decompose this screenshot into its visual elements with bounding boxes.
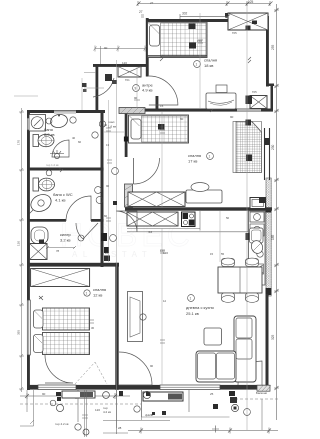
svg-text:1: 1: [196, 63, 198, 67]
svg-text:Г01: Г01: [125, 78, 130, 82]
dimension column left: [19, 108, 24, 392]
room label closet: [60, 232, 72, 243]
wall bathroom2 bottom: [27, 219, 104, 222]
wall between bathrooms: [27, 168, 104, 171]
svg-text:27: 27: [150, 1, 154, 5]
svg-text:120: 120: [160, 249, 165, 253]
svg-text:150: 150: [197, 39, 202, 43]
svg-text:тоал: тоал: [108, 120, 115, 124]
svg-text:60: 60: [104, 214, 108, 218]
wall bathrooms right: [101, 110, 104, 267]
wall left of entrance: [96, 64, 99, 112]
svg-text:170: 170: [17, 140, 21, 145]
axis line horizontal top: [14, 73, 104, 111]
circled markers bottom: [50, 400, 250, 430]
svg-text:Балкони: Балкони: [256, 391, 267, 395]
wall living left: [115, 263, 118, 390]
door leaf closet: [76, 223, 98, 239]
axis line vertical C: [246, 2, 248, 430]
svg-text:15: 15: [160, 104, 164, 108]
wall right upper: [266, 16, 269, 87]
svg-text:13: 13: [106, 143, 110, 147]
section marker black: [101, 233, 109, 253]
door arc living right: [238, 361, 262, 385]
svg-text:27: 27: [139, 10, 143, 14]
svg-text:230: 230: [271, 144, 275, 150]
desk bedroom1: [206, 85, 252, 109]
shelf X closet: [30, 244, 48, 260]
svg-text:25.1 кв: 25.1 кв: [186, 311, 199, 316]
svg-text:120: 120: [95, 408, 100, 412]
dimension right column: [274, 4, 279, 420]
terrace grid right: [233, 120, 270, 181]
svg-text:баня с WC: баня с WC: [53, 192, 73, 197]
svg-text:Г05: Г05: [232, 31, 237, 35]
svg-text:дневна с кухня: дневна с кухня: [186, 305, 214, 310]
wall middle gray piece: [125, 184, 133, 207]
dining table: [218, 267, 262, 293]
room label living: [186, 295, 214, 316]
small ticks and marks scatter: [60, 55, 251, 172]
circled markers corridor: [46, 117, 146, 320]
svg-text:125: 125: [248, 0, 254, 4]
wall bottom exterior: [27, 385, 269, 390]
kitchen cabinet X: [127, 212, 178, 226]
dimension marks corridor: [106, 40, 203, 343]
svg-text:1: 1: [190, 297, 192, 301]
tv stand: [128, 292, 143, 342]
svg-text:30: 30: [91, 326, 95, 330]
door arc living terrace: [119, 352, 152, 385]
svg-text:спалня: спалня: [204, 58, 217, 63]
toilet bathroom2: [33, 178, 55, 191]
window bottom bedroom2: [38, 385, 76, 390]
svg-text:185: 185: [271, 234, 275, 240]
svg-text:90: 90: [106, 184, 110, 188]
dim line closet: [46, 246, 76, 253]
bed bedroom1: [148, 22, 208, 58]
sink bathroom2: [28, 191, 54, 214]
svg-text:тер 4.2 кв: тер 4.2 кв: [55, 422, 69, 426]
svg-text:40: 40: [104, 123, 108, 127]
label terrace bottom: [212, 391, 267, 433]
svg-text:28: 28: [118, 426, 122, 430]
svg-text:130: 130: [17, 241, 21, 246]
svg-text:12: 12: [163, 299, 167, 303]
wall bathroom top: [27, 110, 105, 113]
dimension top: [137, 1, 273, 19]
svg-text:255: 255: [271, 44, 275, 50]
wall top bedroom1: [147, 19, 231, 22]
svg-text:15: 15: [210, 252, 214, 256]
svg-text:9: 9: [135, 87, 137, 91]
svg-text:спалня: спалня: [188, 153, 201, 158]
bottom extra details: [20, 390, 170, 437]
corridor extra markers: [99, 120, 124, 261]
wall middle bedroom left: [124, 112, 128, 157]
svg-text:2.9 кв: 2.9 кв: [44, 132, 55, 137]
axis line vertical B: [116, 60, 118, 428]
doormat X entrance: [118, 67, 141, 78]
svg-text:килер: килер: [60, 232, 72, 237]
svg-text:90: 90: [160, 125, 164, 129]
wall gray under entrance: [119, 108, 145, 114]
bottom small balcony slab: [143, 392, 183, 401]
room label bathroom2: [53, 192, 73, 203]
wall right of terrace (double line above): [0, 0, 1, 1]
svg-text:3.2 кв: 3.2 кв: [60, 238, 71, 243]
svg-text:60: 60: [78, 140, 82, 144]
shower head bathroom1: [50, 150, 64, 159]
door arc bedroom1: [149, 76, 178, 105]
door arc middle bedroom: [134, 158, 160, 184]
wall kitchen horizontal: [125, 207, 272, 210]
svg-text:55: 55: [221, 252, 225, 256]
door arc living from hall: [116, 211, 137, 232]
counter edge kitchen: [127, 211, 248, 232]
svg-text:302: 302: [182, 12, 188, 16]
window bottom living: [160, 385, 220, 390]
room label hall: [133, 83, 154, 93]
svg-text:25: 25: [210, 392, 214, 396]
wardrobe X bedroom2: [31, 269, 90, 287]
pier bottom right hatched: [257, 385, 271, 391]
sofa L: [196, 316, 256, 382]
wardrobe X middle bedroom: [128, 192, 185, 207]
dimension line hall top: [94, 46, 147, 65]
wall closet bottom: [27, 263, 119, 267]
wall right lower hatched: [266, 178, 272, 296]
svg-text:78: 78: [56, 249, 60, 253]
desk middle bedroom: [186, 183, 222, 204]
svg-text:90: 90: [104, 46, 108, 50]
bed middle bedroom: [129, 115, 189, 143]
svg-text:ф12Ф: ф12Ф: [145, 413, 154, 417]
toilet bathroom1: [33, 134, 54, 146]
wall bedroom1 bottom: [142, 96, 273, 112]
dimension line corridor vertical: [109, 13, 221, 385]
wall right living: [266, 294, 269, 390]
svg-text:спалня: спалня: [93, 287, 106, 292]
svg-text:4.2 кв: 4.2 кв: [103, 410, 111, 414]
wardrobe X small corner: [250, 96, 267, 109]
dim marks bedroom2: [39, 296, 95, 330]
svg-text:90: 90: [134, 96, 138, 100]
svg-text:Г05: Г05: [252, 90, 257, 94]
kitchen counter top small: [250, 198, 266, 209]
wardrobe X top right: [225, 13, 268, 30]
window left bedroom2: [27, 300, 30, 355]
svg-text:120: 120: [122, 61, 127, 65]
svg-text:50: 50: [226, 216, 230, 220]
svg-text:90: 90: [150, 364, 154, 368]
svg-text:355: 355: [17, 330, 21, 335]
coffee table: [204, 328, 222, 345]
svg-text:20: 20: [105, 251, 109, 255]
bottom slab left: [62, 391, 95, 398]
wall step right y85: [266, 84, 274, 111]
svg-text:90: 90: [180, 117, 184, 121]
svg-text:90: 90: [230, 115, 234, 119]
svg-text:12 кв: 12 кв: [93, 293, 102, 298]
room label bathroom1: [44, 127, 55, 137]
wall left exterior: [27, 110, 30, 390]
svg-text:1: 1: [209, 155, 211, 159]
bed2 top bedroom2: [34, 308, 90, 330]
bed3 bottom bedroom2: [34, 333, 90, 355]
svg-text:/12: /12: [148, 230, 153, 234]
door arc bathroom2: [66, 196, 91, 221]
chairs dining: [222, 258, 259, 302]
terrace outline bottom: [20, 390, 278, 430]
svg-text:тер 1.2 кв: тер 1.2 кв: [46, 163, 59, 167]
door arc bathroom1: [52, 140, 69, 157]
window left bathroom: [27, 118, 30, 130]
washing machine: [29, 115, 46, 132]
door arc bedroom2 terrace: [45, 355, 107, 384]
dark marker blobs bottom: [56, 391, 166, 415]
svg-text:1: 1: [86, 292, 88, 296]
svg-text:П: П: [59, 167, 61, 171]
svg-text:90: 90: [42, 392, 46, 396]
room label middle bedroom: [188, 153, 213, 164]
room label bedroom2: [84, 287, 106, 298]
svg-text:4.9 кв: 4.9 кв: [142, 88, 153, 93]
svg-text:17 кв: 17 кв: [188, 159, 197, 164]
dimension bottom rows: [20, 390, 278, 434]
svg-text:4.1 кв: 4.1 кв: [55, 198, 66, 203]
water heater closet: [31, 227, 48, 244]
tiny dim texts: [42, 1, 234, 426]
room label bedroom1: [194, 58, 218, 69]
svg-text:40: 40: [72, 136, 76, 140]
kitchen counter right: [246, 211, 266, 285]
stove checker: [182, 212, 196, 227]
svg-text:18 кв: 18 кв: [204, 63, 213, 68]
watermark real estate: [60, 217, 194, 259]
sink bathroom1: [49, 113, 68, 129]
wall bedroom1 left: [146, 18, 149, 77]
door arc entrance: [93, 74, 117, 97]
svg-text:325: 325: [271, 334, 275, 340]
wall entrance top: [93, 64, 148, 67]
